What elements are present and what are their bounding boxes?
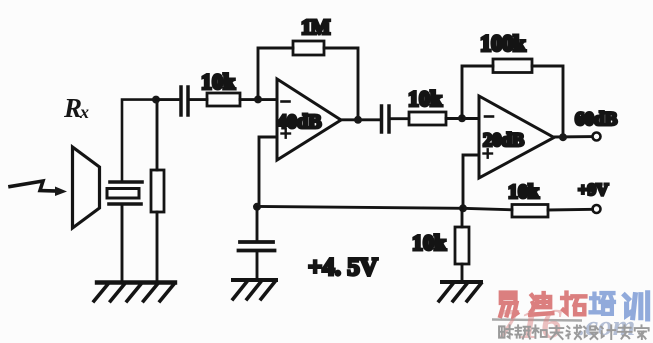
capacitor C3 bbox=[239, 242, 275, 251]
junction dot U2 output bbox=[559, 133, 567, 141]
U2 minus sign bbox=[485, 115, 493, 118]
resistor R3 10k bbox=[409, 112, 446, 125]
wire C1 to R1 bbox=[190, 98, 208, 101]
watermark logo 易迪拓培训 bbox=[500, 293, 647, 319]
crystal microphone element bbox=[107, 182, 142, 204]
svg-text:+9V: +9V bbox=[578, 180, 609, 199]
wire node A to capacitor C1 bbox=[156, 98, 178, 101]
output terminal 60dB bbox=[593, 133, 601, 141]
junction dot rail right bbox=[459, 204, 467, 212]
svg-text:+4. 5V: +4. 5V bbox=[308, 254, 378, 281]
capacitor C2 bbox=[382, 106, 390, 132]
svg-text:10k: 10k bbox=[201, 69, 236, 94]
wire mic bottom to ground bbox=[121, 206, 124, 281]
wire R2 to ground bbox=[156, 212, 159, 281]
wire rail right down to resistor R5 bbox=[461, 208, 464, 227]
logo char 训 bbox=[625, 293, 648, 319]
wire R6 to +9V terminal bbox=[548, 208, 593, 212]
logo char 培 bbox=[591, 293, 614, 314]
transducer horn bbox=[73, 147, 100, 228]
wire U2 plus input down to rail bbox=[463, 155, 479, 208]
U2 plus sign bbox=[484, 149, 493, 157]
svg-text:60dB: 60dB bbox=[575, 109, 618, 130]
watermark overlay italic text bbox=[497, 302, 635, 343]
node A junction dot bbox=[152, 96, 160, 104]
logo char 迪 bbox=[530, 293, 552, 315]
slogan char 设 bbox=[584, 326, 598, 339]
wire R1 to op-amp U1 inverting input bbox=[240, 98, 277, 101]
label Rx bbox=[63, 93, 89, 123]
wire feedback U2 left vertical bbox=[462, 66, 493, 118]
svg-text:20dB: 20dB bbox=[483, 131, 524, 151]
watermark slogan 射频和天线设计专家 bbox=[499, 325, 649, 339]
svg-text:10k: 10k bbox=[412, 230, 447, 255]
op-amp U1 bbox=[277, 79, 341, 160]
slogan char 专 bbox=[618, 325, 632, 338]
capacitor C1 bbox=[181, 87, 188, 115]
slogan char 和 bbox=[532, 325, 546, 338]
ground (middle) bbox=[233, 280, 276, 299]
svg-text:1M: 1M bbox=[301, 15, 331, 39]
wire RF1 to output U1 bbox=[324, 48, 358, 120]
logo char 易 bbox=[500, 293, 517, 316]
resistor R2 bbox=[151, 170, 164, 212]
junction dot feedback U2 bbox=[458, 114, 466, 122]
logo char 拓 bbox=[562, 293, 585, 315]
wire R5 to ground bbox=[461, 264, 464, 280]
svg-text:x: x bbox=[79, 102, 89, 122]
resistor R5 10k bbox=[455, 227, 469, 264]
wire mic top to node A bbox=[122, 100, 156, 180]
wire RF2 to output U2 bbox=[532, 66, 563, 137]
svg-text:100k: 100k bbox=[480, 31, 526, 56]
ground (right) bbox=[439, 282, 481, 301]
wire U1 output bbox=[341, 118, 380, 121]
bias rail wire bbox=[257, 207, 512, 210]
wire U2 output bbox=[554, 135, 592, 138]
resistor RF2 100k bbox=[493, 59, 532, 73]
wire feedback U1 left vertical bbox=[258, 48, 293, 99]
resistor RF1 1M bbox=[293, 41, 324, 55]
svg-text:10k: 10k bbox=[508, 181, 540, 203]
resistor R1 10k bbox=[207, 93, 240, 106]
wire node A down to resistor R2 bbox=[156, 100, 159, 170]
slogan char 线 bbox=[566, 325, 581, 339]
wire rail left down to capacitor C3 bbox=[256, 207, 259, 239]
svg-text:40dB: 40dB bbox=[277, 111, 321, 133]
slogan char 射 bbox=[499, 325, 513, 338]
slogan char 家 bbox=[635, 325, 649, 339]
signal arrow into receiver bbox=[10, 181, 67, 196]
op-amp U2 bbox=[479, 96, 554, 178]
slogan char 频 bbox=[515, 325, 530, 338]
ground (left) bbox=[94, 283, 175, 302]
U1 plus sign bbox=[282, 129, 291, 137]
wire R3 to U2 inverting input bbox=[446, 117, 479, 120]
junction dot U1 output bbox=[354, 116, 362, 124]
terminal +9V bbox=[593, 205, 601, 213]
junction dot feedback U1 bbox=[254, 95, 262, 103]
wire U1 plus input down to rail bbox=[259, 137, 277, 207]
svg-text:10k: 10k bbox=[408, 86, 443, 111]
resistor R6 10k bbox=[512, 205, 548, 218]
wire C2 to R3 bbox=[391, 117, 410, 120]
wire C3 to ground bbox=[256, 252, 259, 278]
junction dot rail left bbox=[253, 203, 261, 211]
U1 minus sign bbox=[282, 100, 290, 103]
slogan char 天 bbox=[550, 326, 564, 339]
svg-text:.com: .com bbox=[578, 310, 635, 342]
slogan char 计 bbox=[601, 325, 615, 339]
watermark underline bbox=[492, 320, 582, 321]
